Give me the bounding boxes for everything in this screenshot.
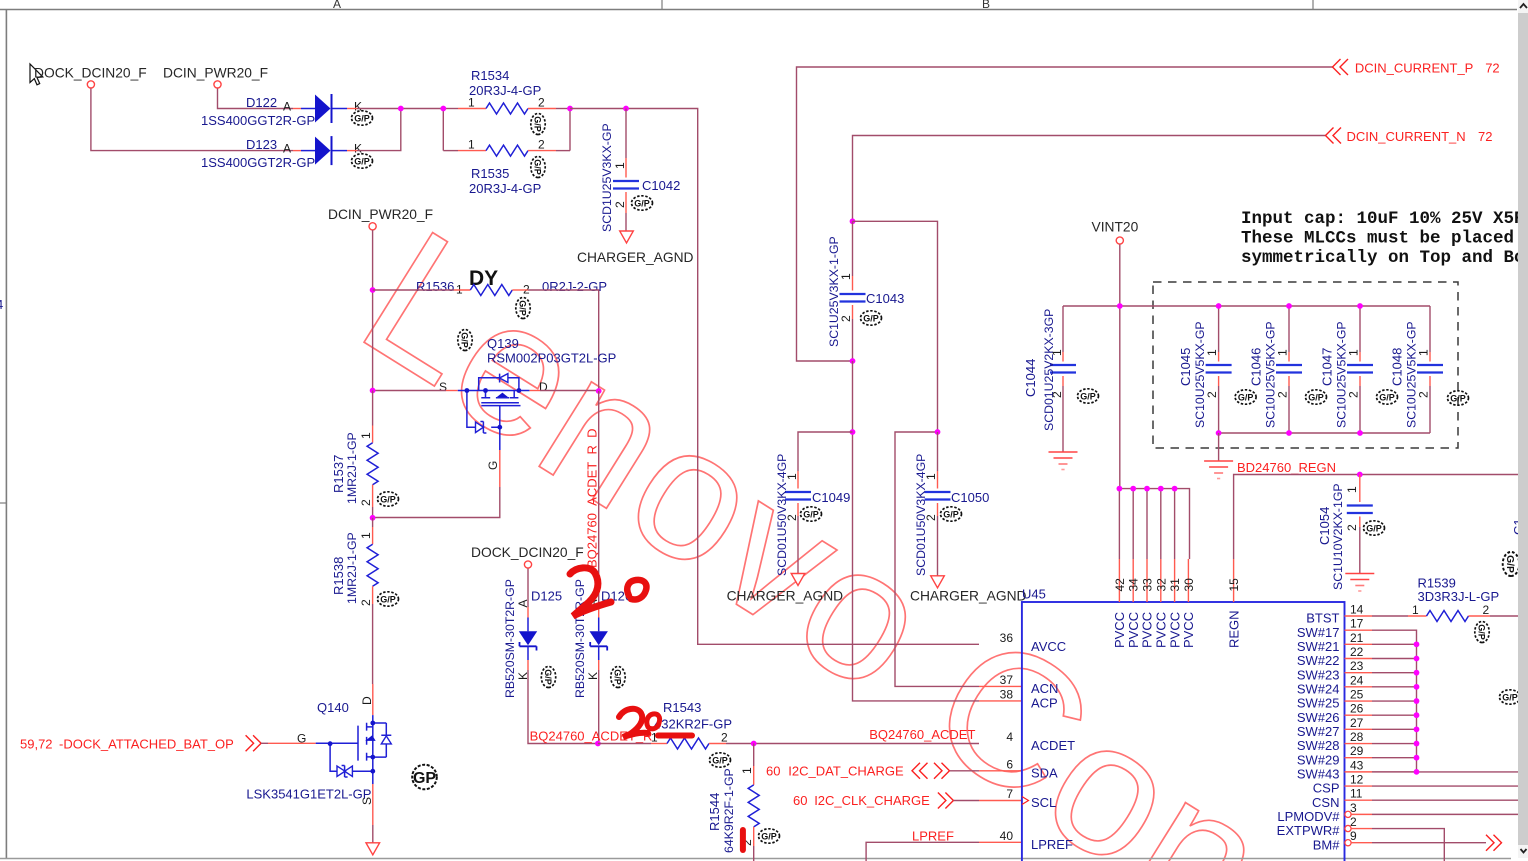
svg-text:6: 6: [1006, 757, 1013, 771]
offpage connector BM#: [1486, 835, 1502, 851]
svg-text:1: 1: [924, 473, 938, 480]
diode D123: [201, 136, 373, 170]
svg-text:A: A: [333, 0, 341, 11]
svg-text:G: G: [486, 461, 500, 470]
svg-text:SW#21: SW#21: [1297, 639, 1340, 654]
wire Q139 S row: [373, 390, 599, 392]
svg-text:PVCC: PVCC: [1112, 612, 1127, 648]
svg-text:Q140: Q140: [317, 700, 349, 715]
svg-text:EXTPWR#: EXTPWR#: [1277, 823, 1341, 838]
svg-text:R1534: R1534: [471, 68, 509, 83]
svg-text:SW#23: SW#23: [1297, 667, 1340, 682]
svg-text:7: 7: [1006, 787, 1013, 801]
capacitor C1048: [1389, 306, 1468, 433]
svg-text:D125: D125: [531, 589, 562, 604]
junction PVCC bus dot: [1130, 486, 1136, 492]
svg-text:PVCC: PVCC: [1167, 612, 1182, 648]
svg-text:1: 1: [1275, 349, 1289, 356]
svg-text:26: 26: [1350, 702, 1364, 716]
capacitor C1050: [914, 432, 989, 576]
offpage connector DOCK_ATTACHED_BAT_OP: [246, 735, 262, 751]
svg-text:14: 14: [1350, 603, 1364, 617]
svg-text:2: 2: [785, 514, 799, 521]
svg-text:AVCC: AVCC: [1031, 639, 1066, 654]
svg-text:20R3J-4-GP: 20R3J-4-GP: [469, 181, 541, 196]
wire VINT20 to PVCC bus: [1119, 245, 1121, 489]
svg-text:SW#26: SW#26: [1297, 710, 1340, 725]
svg-text:1: 1: [785, 473, 799, 480]
svg-text:R1537: R1537: [331, 455, 346, 493]
svg-text:PVCC: PVCC: [1126, 612, 1141, 648]
svg-text:1: 1: [1345, 486, 1359, 493]
svg-text:DOCK_DCIN20_F: DOCK_DCIN20_F: [471, 545, 584, 560]
resistor R1534: [443, 68, 570, 135]
pin 27 SW#27: [1297, 716, 1372, 739]
junction R1544 tap: [751, 741, 757, 747]
annotation marker D (near D126): [627, 580, 646, 600]
junction Q139 drain node: [596, 388, 602, 394]
resistor R1538: [331, 518, 399, 684]
pin 2 EXTPWR#: [1277, 815, 1372, 838]
pin 17 SW#17: [1297, 617, 1372, 640]
svg-text:2: 2: [359, 499, 373, 506]
wire BTST to R1539: [1372, 615, 1408, 617]
svg-text:1: 1: [613, 162, 627, 169]
svg-text:43: 43: [1350, 758, 1364, 772]
svg-text:72: 72: [1485, 61, 1499, 76]
svg-text:23: 23: [1350, 659, 1364, 673]
junction bus C1045 top: [1216, 303, 1363, 309]
offpage connector SCL: [938, 793, 954, 809]
svg-text:CSN: CSN: [1312, 795, 1339, 810]
svg-text:R1535: R1535: [471, 166, 509, 181]
svg-text:2: 2: [1483, 603, 1490, 617]
svg-text:SC1U10V2KX-1GP: SC1U10V2KX-1GP: [1331, 483, 1345, 590]
ground CHARGER_AGND (C1049): [727, 574, 844, 604]
svg-text:SC10U25V5KX-GP: SC10U25V5KX-GP: [1263, 321, 1277, 428]
junction divider node: [370, 515, 376, 521]
svg-text:K: K: [354, 142, 362, 156]
sheet top border: [0, 0, 1517, 10]
terminal DOCK_DCIN20_F (second): [524, 561, 531, 568]
wire BD24760_REGN: [1234, 475, 1528, 560]
svg-text:A: A: [516, 599, 530, 607]
capacitor C1046: [1248, 306, 1326, 433]
svg-text:BQ24760_ACDET_R_D: BQ24760_ACDET_R_D: [585, 429, 600, 568]
net label I2C_DAT_CHARGE: [766, 763, 904, 778]
wire N to ACN: [853, 221, 1022, 686]
pin 21 SW#21: [1297, 631, 1372, 654]
capacitor C1042: [600, 109, 680, 233]
junction PVCC bus dot: [1172, 486, 1178, 492]
svg-text:BD24760_REGN: BD24760_REGN: [1237, 460, 1336, 475]
svg-text:DCIN_CURRENT_N: DCIN_CURRENT_N: [1347, 129, 1466, 144]
junction Q139 source node: [370, 388, 376, 394]
capacitor C1043: [827, 221, 904, 361]
svg-text:64K9R2F-1-GP: 64K9R2F-1-GP: [722, 768, 736, 853]
svg-text:30: 30: [1182, 578, 1196, 592]
junction PVCC bus dot: [1144, 486, 1150, 492]
junction R pair left: [440, 106, 446, 112]
bottom edge line: [0, 858, 1511, 860]
svg-text:432KR2F-GP: 432KR2F-GP: [654, 717, 732, 732]
svg-text:A: A: [283, 142, 291, 156]
svg-text:These MLCCs must be placed: These MLCCs must be placed: [1241, 229, 1514, 249]
svg-text:R1536: R1536: [416, 279, 454, 294]
svg-text:Q139: Q139: [487, 336, 519, 351]
pin 40 LPREF: [1000, 829, 1073, 852]
svg-text:32: 32: [1154, 578, 1168, 592]
svg-text:2: 2: [1346, 391, 1360, 398]
svg-text:1: 1: [359, 432, 373, 439]
offpage connector DCIN_CURRENT_N: [1326, 128, 1342, 144]
stamp GP right edge (y697): [1500, 690, 1521, 704]
svg-text:symmetrically on Top and Bo: symmetrically on Top and Bo: [1241, 248, 1525, 268]
svg-text:24: 24: [1350, 673, 1364, 687]
svg-text:37: 37: [1000, 673, 1014, 687]
svg-text:17: 17: [1350, 617, 1364, 631]
svg-text:PVCC: PVCC: [1154, 612, 1169, 648]
terminal DCIN_PWR20_F: [214, 81, 221, 88]
svg-text:I2C_DAT_CHARGE: I2C_DAT_CHARGE: [788, 763, 904, 778]
svg-text:SC10U25V5KX-GP: SC10U25V5KX-GP: [1193, 321, 1207, 428]
junction SW bus dots: [1414, 641, 1420, 774]
svg-text:LPREF: LPREF: [912, 828, 954, 843]
annotation vertical stroke (R1544): [740, 830, 746, 850]
svg-text:SW#25: SW#25: [1297, 696, 1340, 711]
svg-text:1MR2J-1-GP: 1MR2J-1-GP: [345, 532, 359, 604]
svg-text:36: 36: [1000, 631, 1014, 645]
junction R1536 tap: [370, 287, 376, 293]
watermark Lenovo Confidential: [330, 190, 1301, 861]
svg-text:LSK3541G1ET2L-GP: LSK3541G1ET2L-GP: [246, 787, 371, 802]
svg-text:40: 40: [1000, 829, 1014, 843]
ground bars (C1044): [1049, 452, 1078, 470]
svg-text:D: D: [360, 696, 374, 705]
annotation underline (R1543): [658, 733, 692, 739]
junction R pair right: [567, 106, 573, 112]
svg-text:25: 25: [1350, 688, 1364, 702]
pin 24 SW#24: [1297, 673, 1372, 696]
wire DCIN_CURRENT_P net: [797, 67, 1333, 361]
pin 22 SW#22: [1297, 645, 1372, 668]
svg-text:CHARGER_AGND: CHARGER_AGND: [910, 589, 1027, 604]
resistor R1544: [707, 744, 780, 861]
svg-text:D: D: [539, 380, 548, 394]
svg-text:D122: D122: [246, 95, 277, 110]
svg-text:C1045: C1045: [1178, 348, 1193, 386]
svg-text:29: 29: [1350, 744, 1364, 758]
svg-text:C1054: C1054: [1317, 507, 1332, 545]
capacitor C1045: [1178, 306, 1256, 433]
svg-text:DOCK_DCIN20_F: DOCK_DCIN20_F: [34, 66, 147, 81]
junction bus bottom: [1216, 430, 1363, 436]
ground arrow (Q140 source): [366, 843, 380, 855]
wire cap bus bottom: [1219, 432, 1430, 434]
offpage connector SDA: [912, 763, 950, 779]
wire D126 anode from Q139 drain: [598, 391, 600, 607]
svg-text:SC1U25V3KX-1-GP: SC1U25V3KX-1-GP: [827, 236, 841, 347]
wire LPMODV#: [1372, 813, 1528, 815]
junction PVCC bus: [1117, 486, 1123, 492]
svg-text:1: 1: [468, 138, 475, 152]
svg-text:1: 1: [839, 273, 853, 280]
pin 28 SW#28: [1297, 730, 1372, 753]
mouse cursor: [30, 64, 43, 85]
svg-text:2: 2: [538, 138, 545, 152]
svg-text:1: 1: [468, 96, 475, 110]
svg-text:C1043: C1043: [866, 291, 904, 306]
svg-text:1SS400GGT2R-GP: 1SS400GGT2R-GP: [201, 113, 315, 128]
pin 42 PVCC: [1112, 489, 1127, 648]
svg-text:C1049: C1049: [812, 490, 850, 505]
svg-text:34: 34: [1127, 578, 1141, 592]
svg-text:1: 1: [740, 767, 754, 774]
svg-text:REGN: REGN: [1226, 610, 1241, 648]
svg-text:2: 2: [839, 315, 853, 322]
transistor Q140: [246, 684, 391, 843]
junction C1050 tap: [935, 429, 941, 435]
terminal DCIN_PWR20_F (second): [369, 223, 376, 230]
diode D125: [503, 569, 598, 744]
junction C1042 tap: [623, 106, 629, 112]
wire SW bus: [1372, 630, 1528, 772]
svg-text:CHARGER_AGND: CHARGER_AGND: [727, 589, 844, 604]
pin 15 REGN: [1226, 559, 1241, 648]
wire LPREF: [866, 842, 1022, 861]
svg-text:SC10U25V5KX-GP: SC10U25V5KX-GP: [1334, 321, 1348, 428]
pin 25 SW#25: [1297, 688, 1372, 711]
svg-text:2: 2: [1275, 391, 1289, 398]
pin 31 PVCC: [1167, 489, 1182, 648]
svg-text:2: 2: [1345, 524, 1359, 531]
svg-text:1SS400GGT2R-GP: 1SS400GGT2R-GP: [201, 155, 315, 170]
svg-text:42: 42: [1113, 578, 1127, 592]
svg-text:3D3R3J-L-GP: 3D3R3J-L-GP: [1418, 589, 1500, 604]
svg-text:U45: U45: [1022, 587, 1046, 602]
wire gate Q140: [261, 742, 316, 744]
svg-text:DCIN_PWR20_F: DCIN_PWR20_F: [328, 207, 433, 222]
svg-text:G: G: [297, 732, 306, 746]
annotation marker 2 (near D126): [570, 568, 611, 616]
pin 43 SW#43: [1297, 758, 1372, 781]
svg-text:SW#24: SW#24: [1297, 681, 1340, 696]
wire BM#: [1372, 842, 1486, 844]
svg-text:27: 27: [1350, 716, 1364, 730]
junction diode K node: [398, 106, 404, 112]
svg-text:C1048: C1048: [1389, 348, 1404, 386]
svg-text:1MR2J-1-GP: 1MR2J-1-GP: [345, 432, 359, 504]
svg-text:RSM002P03GT2L-GP: RSM002P03GT2L-GP: [487, 351, 616, 366]
wire P to ACP: [853, 361, 1022, 701]
wire EXTPWR#: [1372, 829, 1444, 861]
svg-text:ACDET: ACDET: [1031, 738, 1075, 753]
resistor R1543: [598, 700, 979, 767]
svg-text:R1544: R1544: [707, 793, 722, 831]
resistor R1539: [1408, 576, 1528, 643]
svg-text:RB520SM-30T2R-GP: RB520SM-30T2R-GP: [503, 579, 517, 698]
svg-text:C1044: C1044: [1023, 359, 1038, 397]
wire DCIN_PWR20_F to D122 anode: [218, 89, 294, 109]
capacitor C1054: [1317, 475, 1385, 591]
svg-text:1: 1: [1050, 349, 1064, 356]
ground CHARGER_AGND (C1042): [577, 231, 694, 265]
svg-text:K: K: [586, 672, 600, 680]
svg-text:LPREF: LPREF: [1031, 837, 1073, 852]
svg-text:DCIN_PWR20_F: DCIN_PWR20_F: [163, 66, 268, 81]
ground CHARGER_AGND (C1050): [910, 576, 1027, 604]
capacitor C1049: [775, 432, 853, 576]
svg-text:60: 60: [793, 793, 807, 808]
svg-text:0R2J-2-GP: 0R2J-2-GP: [542, 279, 607, 294]
net label DCIN_CURRENT_N 72: [1347, 129, 1493, 144]
svg-text:I2C_CLK_CHARGE: I2C_CLK_CHARGE: [814, 793, 930, 808]
junction P to C1043: [850, 358, 856, 364]
svg-text:1: 1: [359, 532, 373, 539]
annotation marker 2 (near R1543): [619, 709, 648, 737]
annotation marker D (near R1543): [647, 714, 660, 729]
wire CSP: [1372, 785, 1528, 787]
pin 23 SW#23: [1297, 659, 1372, 682]
svg-text:28: 28: [1350, 730, 1364, 744]
wire VINT20 cap bus top: [1063, 305, 1430, 307]
svg-text:S: S: [439, 380, 447, 394]
svg-text:12: 12: [1350, 773, 1364, 787]
wire PVCC bus: [1119, 489, 1189, 559]
svg-text:60: 60: [766, 763, 780, 778]
svg-text:72: 72: [1478, 129, 1492, 144]
svg-text:2: 2: [1416, 391, 1430, 398]
svg-text:ACN: ACN: [1031, 681, 1058, 696]
svg-text:A: A: [283, 100, 291, 114]
pin 26 SW#26: [1297, 702, 1372, 725]
svg-text:22: 22: [1350, 645, 1364, 659]
pin 12 CSP: [1313, 773, 1372, 796]
junction C1049 tap: [850, 429, 856, 435]
pin 30 PVCC: [1181, 559, 1196, 648]
svg-text:-DOCK_ATTACHED_BAT_OP: -DOCK_ATTACHED_BAT_OP: [59, 737, 234, 752]
resistor R1535: [443, 138, 570, 197]
pin 11 CSN: [1312, 787, 1372, 810]
pin 29 SW#29: [1297, 744, 1372, 767]
wire CSN: [1372, 799, 1528, 801]
svg-text:BM#: BM#: [1313, 837, 1341, 852]
svg-text:2: 2: [359, 599, 373, 606]
svg-text:GP: GP: [413, 770, 436, 787]
svg-text:1: 1: [1412, 603, 1419, 617]
pin 14 BTST: [1306, 603, 1372, 626]
svg-text:11: 11: [1350, 787, 1363, 801]
svg-text:CHARGER_AGND: CHARGER_AGND: [577, 250, 694, 265]
pin 32 PVCC: [1154, 489, 1169, 648]
svg-text:PVCC: PVCC: [1181, 612, 1196, 648]
ground bars (cap bus): [1204, 461, 1233, 479]
wire SCL: [954, 800, 1022, 802]
junction PVCC bus dot: [1158, 486, 1164, 492]
net label I2C_CLK_CHARGE: [793, 793, 930, 808]
pin 36 AVCC: [1000, 631, 1067, 654]
svg-text:38: 38: [1000, 687, 1014, 701]
svg-text:SW#43: SW#43: [1297, 766, 1340, 781]
svg-text:4: 4: [0, 297, 3, 312]
svg-text:2: 2: [721, 731, 728, 745]
diode D126: [573, 579, 632, 743]
svg-text:C1042: C1042: [642, 178, 680, 193]
svg-text:R1543: R1543: [663, 700, 701, 715]
pin 6 SDA: [1006, 757, 1058, 780]
svg-text:2: 2: [1050, 391, 1064, 398]
svg-text:1: 1: [1346, 349, 1360, 356]
junction ACDET_R node: [595, 741, 601, 747]
junction N to C1043: [850, 218, 856, 224]
svg-text:BTST: BTST: [1306, 611, 1339, 626]
svg-text:CSP: CSP: [1313, 781, 1340, 796]
capacitor C1047: [1319, 306, 1397, 433]
svg-text:R1538: R1538: [331, 557, 346, 595]
terminal DOCK_DCIN20_F: [87, 81, 94, 88]
wire Q139 gate to divider: [373, 487, 500, 518]
svg-text:DCIN_CURRENT_P: DCIN_CURRENT_P: [1355, 61, 1473, 76]
diode D122: [201, 94, 373, 128]
wire SDA: [950, 770, 1022, 772]
svg-text:C1047: C1047: [1319, 348, 1334, 386]
pin 7 SCL: [1006, 787, 1056, 810]
capacitor C1044: [1023, 306, 1099, 452]
svg-text:SC10U25V5KX-GP: SC10U25V5KX-GP: [1404, 321, 1418, 428]
svg-text:Input cap: 10uF 10% 25V X5R: Input cap: 10uF 10% 25V X5R: [1241, 209, 1525, 229]
wire DOCK_DCIN20_F to D123 anode: [91, 89, 293, 151]
svg-text:C1050: C1050: [951, 490, 989, 505]
wire DCIN rail to AVCC: [570, 109, 979, 645]
net label 59,72 -DOCK_ATTACHED_BAT_OP: [20, 737, 234, 752]
svg-text:1: 1: [1205, 349, 1219, 356]
svg-text:SW#22: SW#22: [1297, 653, 1340, 668]
op-amp U45 charger IC box: [1022, 602, 1345, 861]
svg-text:LPMODV#: LPMODV#: [1277, 809, 1340, 824]
stamp GP right edge (y564): [1503, 552, 1520, 576]
note input cap text: [1241, 209, 1525, 268]
svg-text:SCD01U25V2KX-3GP: SCD01U25V2KX-3GP: [1042, 309, 1056, 431]
svg-text:1: 1: [1416, 349, 1430, 356]
stamp GP (Q140): [412, 765, 437, 790]
resistor R1537: [331, 391, 399, 518]
svg-text:33: 33: [1141, 578, 1155, 592]
offpage connector DCIN_CURRENT_P: [1333, 59, 1349, 75]
pin 38 ACP: [1000, 687, 1058, 710]
resistor R1536: [373, 279, 607, 391]
svg-text:SDA: SDA: [1031, 765, 1058, 780]
wire diode outputs to R pair: [357, 109, 570, 151]
svg-text:S: S: [360, 797, 374, 805]
svg-text:15: 15: [1227, 578, 1241, 592]
svg-text:SW#29: SW#29: [1297, 752, 1340, 767]
svg-text:59,72: 59,72: [20, 737, 53, 752]
svg-text:21: 21: [1350, 631, 1364, 645]
transistor Q139: [439, 330, 616, 488]
svg-text:4: 4: [1006, 730, 1013, 744]
svg-text:31: 31: [1168, 578, 1182, 592]
pin 9 BM#: [1313, 829, 1372, 852]
pin 4 ACDET: [1006, 730, 1075, 753]
net label DCIN_CURRENT_P 72: [1355, 61, 1500, 76]
svg-text:SCD1U25V3KX-GP: SCD1U25V3KX-GP: [600, 123, 614, 232]
svg-text:SW#27: SW#27: [1297, 724, 1340, 739]
terminal VINT20: [1116, 237, 1123, 244]
svg-text:2: 2: [538, 96, 545, 110]
sheet left border: [0, 10, 6, 859]
wire ground stub (cap bus): [1218, 433, 1220, 461]
svg-text:2: 2: [613, 201, 627, 208]
